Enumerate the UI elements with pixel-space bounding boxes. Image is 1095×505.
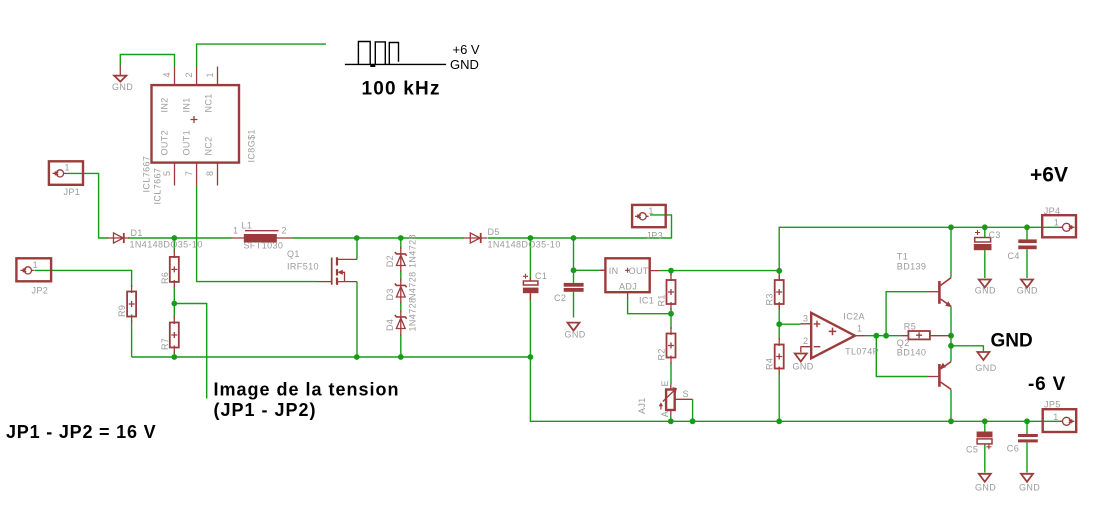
svg-text:NC2: NC2 — [204, 136, 214, 155]
svg-text:R2: R2 — [657, 348, 667, 360]
svg-text:IC1: IC1 — [639, 296, 654, 306]
svg-text:5: 5 — [162, 171, 172, 176]
svg-text:OUT1: OUT1 — [182, 130, 192, 156]
svg-text:D3: D3 — [385, 288, 395, 300]
svg-text:1: 1 — [65, 163, 70, 173]
svg-text:D4: D4 — [385, 319, 395, 331]
svg-text:N4728: N4728 — [408, 271, 418, 300]
svg-text:R6: R6 — [160, 272, 170, 284]
svg-text:NC1: NC1 — [204, 93, 214, 112]
svg-text:C5: C5 — [966, 445, 978, 455]
svg-text:1N4728: 1N4728 — [408, 298, 418, 332]
svg-text:C2: C2 — [554, 293, 566, 303]
svg-text:GND: GND — [1017, 286, 1038, 296]
svg-text:R9: R9 — [117, 305, 127, 317]
svg-text:IN1: IN1 — [182, 97, 192, 112]
svg-text:8: 8 — [205, 171, 215, 176]
svg-text:Q1: Q1 — [287, 249, 300, 259]
svg-text:BD140: BD140 — [897, 347, 927, 357]
svg-text:BD139: BD139 — [897, 261, 927, 271]
svg-text:IC8G$1: IC8G$1 — [247, 129, 257, 162]
svg-text:GND: GND — [1019, 483, 1040, 493]
svg-text:1: 1 — [857, 324, 862, 334]
svg-text:1N4148DO35-10: 1N4148DO35-10 — [488, 240, 561, 250]
svg-text:1: 1 — [1053, 412, 1058, 422]
svg-text:IRF510: IRF510 — [287, 262, 319, 272]
svg-text:7: 7 — [184, 171, 194, 176]
svg-text:100 kHz: 100 kHz — [362, 79, 441, 100]
svg-text:1: 1 — [33, 260, 38, 270]
svg-text:JP1 - JP2 = 16 V: JP1 - JP2 = 16 V — [6, 422, 156, 442]
svg-text:S: S — [683, 389, 689, 399]
svg-text:1: 1 — [648, 206, 653, 216]
svg-text:1: 1 — [1054, 217, 1059, 227]
svg-text:1: 1 — [205, 72, 215, 77]
svg-text:JP2: JP2 — [32, 286, 49, 296]
svg-text:C4: C4 — [1008, 251, 1020, 261]
svg-text:T1: T1 — [897, 252, 908, 262]
svg-text:4: 4 — [162, 72, 172, 77]
svg-text:-6 V: -6 V — [1028, 374, 1066, 395]
svg-text:JP1: JP1 — [64, 187, 81, 197]
svg-text:A: A — [660, 411, 670, 417]
svg-text:GND: GND — [793, 362, 814, 372]
svg-text:TL074P: TL074P — [845, 347, 879, 357]
svg-text:GND: GND — [991, 331, 1033, 352]
svg-text:1N4148DO35-10: 1N4148DO35-10 — [130, 240, 203, 250]
svg-text:+6V: +6V — [1030, 164, 1068, 187]
svg-text:R1: R1 — [657, 294, 667, 306]
svg-text:3: 3 — [803, 314, 808, 324]
svg-text:2: 2 — [803, 336, 808, 346]
svg-text:E: E — [660, 380, 670, 386]
svg-text:AJ1: AJ1 — [637, 397, 647, 414]
svg-text:JP3: JP3 — [646, 231, 663, 241]
svg-text:2: 2 — [282, 226, 287, 236]
svg-text:C3: C3 — [989, 230, 1001, 240]
svg-text:GND: GND — [975, 286, 996, 296]
svg-text:D1: D1 — [131, 228, 143, 238]
svg-text:R5: R5 — [904, 321, 916, 331]
svg-text:IN2: IN2 — [160, 97, 170, 112]
svg-text:JP4: JP4 — [1044, 206, 1061, 216]
svg-text:D2: D2 — [385, 255, 395, 267]
svg-text:GND: GND — [565, 330, 586, 340]
svg-text:OUT2: OUT2 — [160, 130, 170, 156]
svg-text:+6 V: +6 V — [453, 42, 480, 57]
svg-text:SFT1030: SFT1030 — [244, 241, 284, 251]
svg-text:OUT: OUT — [629, 266, 649, 276]
svg-text:IN: IN — [609, 266, 619, 276]
svg-text:ICL7667: ICL7667 — [142, 156, 152, 193]
svg-text:L1: L1 — [242, 221, 253, 231]
svg-text:IC2A: IC2A — [843, 312, 865, 322]
svg-text:C6: C6 — [1007, 443, 1019, 453]
svg-text:2: 2 — [184, 72, 194, 77]
svg-text:GND: GND — [975, 363, 996, 373]
svg-text:1N4728: 1N4728 — [408, 234, 418, 268]
svg-text:GND: GND — [450, 57, 479, 72]
svg-text:C1: C1 — [535, 271, 547, 281]
svg-text:JP5: JP5 — [1044, 400, 1061, 410]
svg-text:R3: R3 — [765, 293, 775, 305]
svg-text:D5: D5 — [488, 227, 500, 237]
svg-text:GND: GND — [112, 82, 133, 92]
svg-text:R7: R7 — [160, 338, 170, 350]
svg-text:1: 1 — [233, 226, 238, 236]
svg-text:ADJ: ADJ — [619, 282, 637, 292]
svg-text:R4: R4 — [765, 358, 775, 370]
svg-text:(JP1 - JP2): (JP1 - JP2) — [214, 400, 317, 420]
svg-text:GND: GND — [975, 483, 996, 493]
svg-text:Image de la tension: Image de la tension — [214, 380, 400, 400]
